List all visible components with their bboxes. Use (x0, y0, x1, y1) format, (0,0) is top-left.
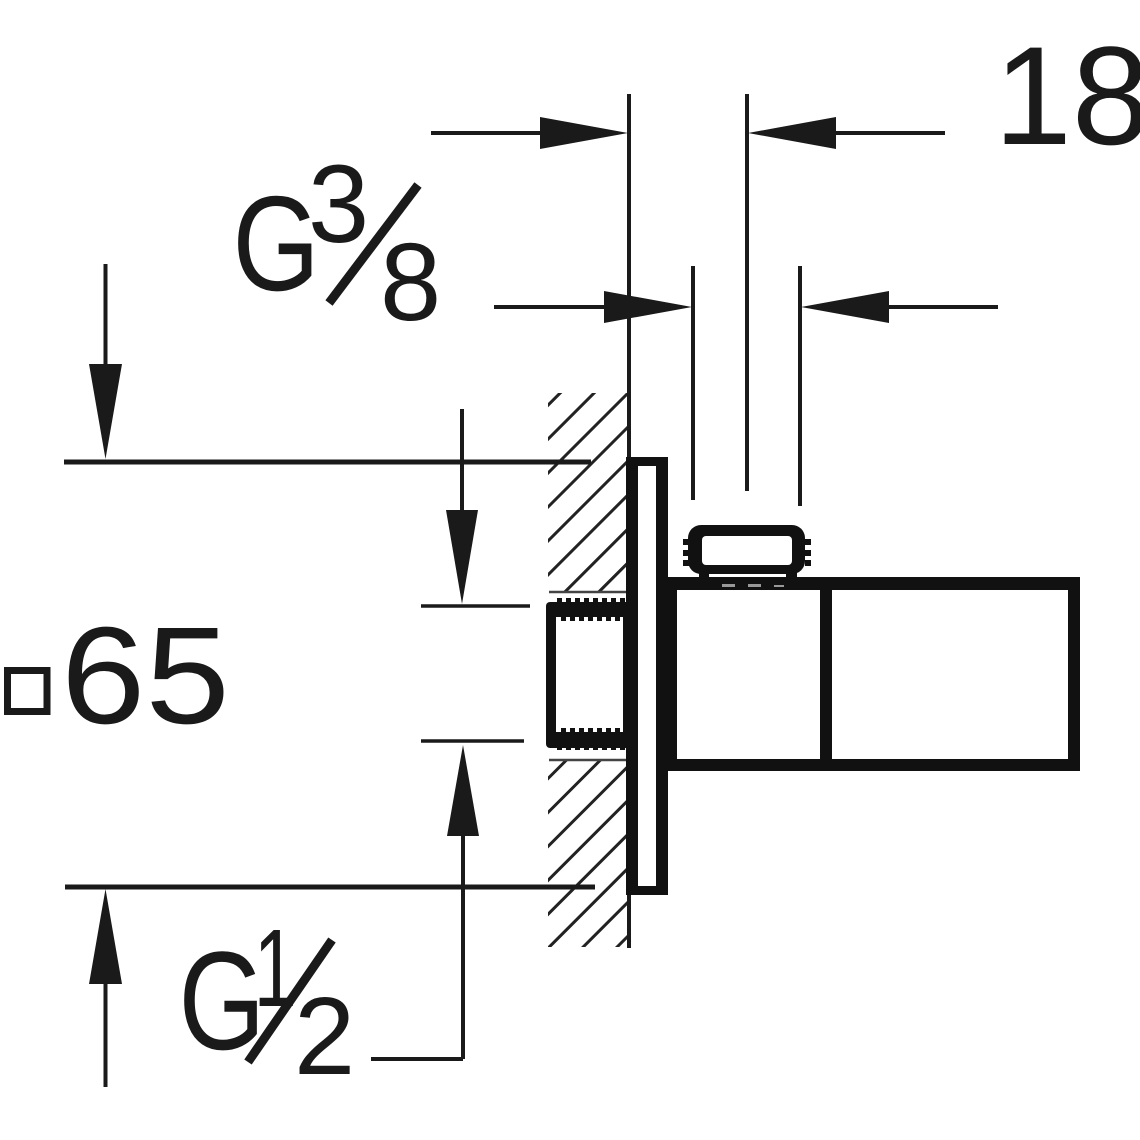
knob right foot (786, 570, 797, 585)
svg-text:2: 2 (294, 975, 355, 1098)
connector bottom dim arrow (447, 745, 479, 836)
dim G3/8 left arrowhead (604, 291, 692, 323)
knob G3/8 nut (688, 525, 805, 574)
wall face line (627, 94, 631, 460)
connector knurl top outer (557, 598, 625, 604)
svg-text:65: 65 (61, 598, 230, 752)
extension line top port center (745, 94, 749, 491)
G1/2 leader horizontal (371, 1057, 463, 1061)
connector knurl bottom outer (557, 744, 625, 750)
dim G3/8 right line (880, 305, 998, 309)
extension line thread left (691, 266, 695, 500)
dim 18 right line (816, 131, 945, 135)
plate bottom reference line (65, 885, 595, 890)
dim G3/8 left line (494, 305, 620, 309)
connector knurl bottom inner (561, 728, 620, 732)
dim 18 left line (431, 131, 560, 135)
hatch boundary line above connector (549, 591, 626, 594)
connector knurl top inner (561, 617, 620, 621)
dim 18 right arrowhead (748, 117, 836, 149)
dim 18 left arrowhead (540, 117, 628, 149)
wall hatch lower (548, 760, 629, 947)
connector top tick (421, 604, 530, 608)
extension line thread right (798, 266, 802, 506)
svg-text:3: 3 (308, 143, 369, 266)
wall plate escutcheon (626, 457, 668, 895)
svg-text:18: 18 (994, 17, 1140, 174)
connector top dim arrow (460, 409, 464, 515)
square 65 up arrow (104, 975, 108, 1087)
knob knurl right (805, 539, 811, 566)
knob left foot (699, 570, 709, 585)
svg-text:1: 1 (254, 908, 297, 1031)
knob knurl left (683, 539, 689, 566)
wall connector G1/2 body (546, 602, 638, 748)
svg-text:8: 8 (380, 221, 441, 344)
square symbol (8, 671, 48, 712)
wall hatch upper (548, 393, 629, 592)
hatch boundary line below connector (549, 759, 626, 762)
svg-text:G: G (233, 169, 320, 319)
square 65 down arrow (104, 264, 108, 375)
connector bottom tick (421, 739, 524, 743)
plate top reference line (64, 460, 591, 465)
dim G3/8 right arrowhead (801, 291, 889, 323)
body top edge dashes under knob (722, 584, 784, 587)
valve body and handle (666, 577, 1080, 771)
